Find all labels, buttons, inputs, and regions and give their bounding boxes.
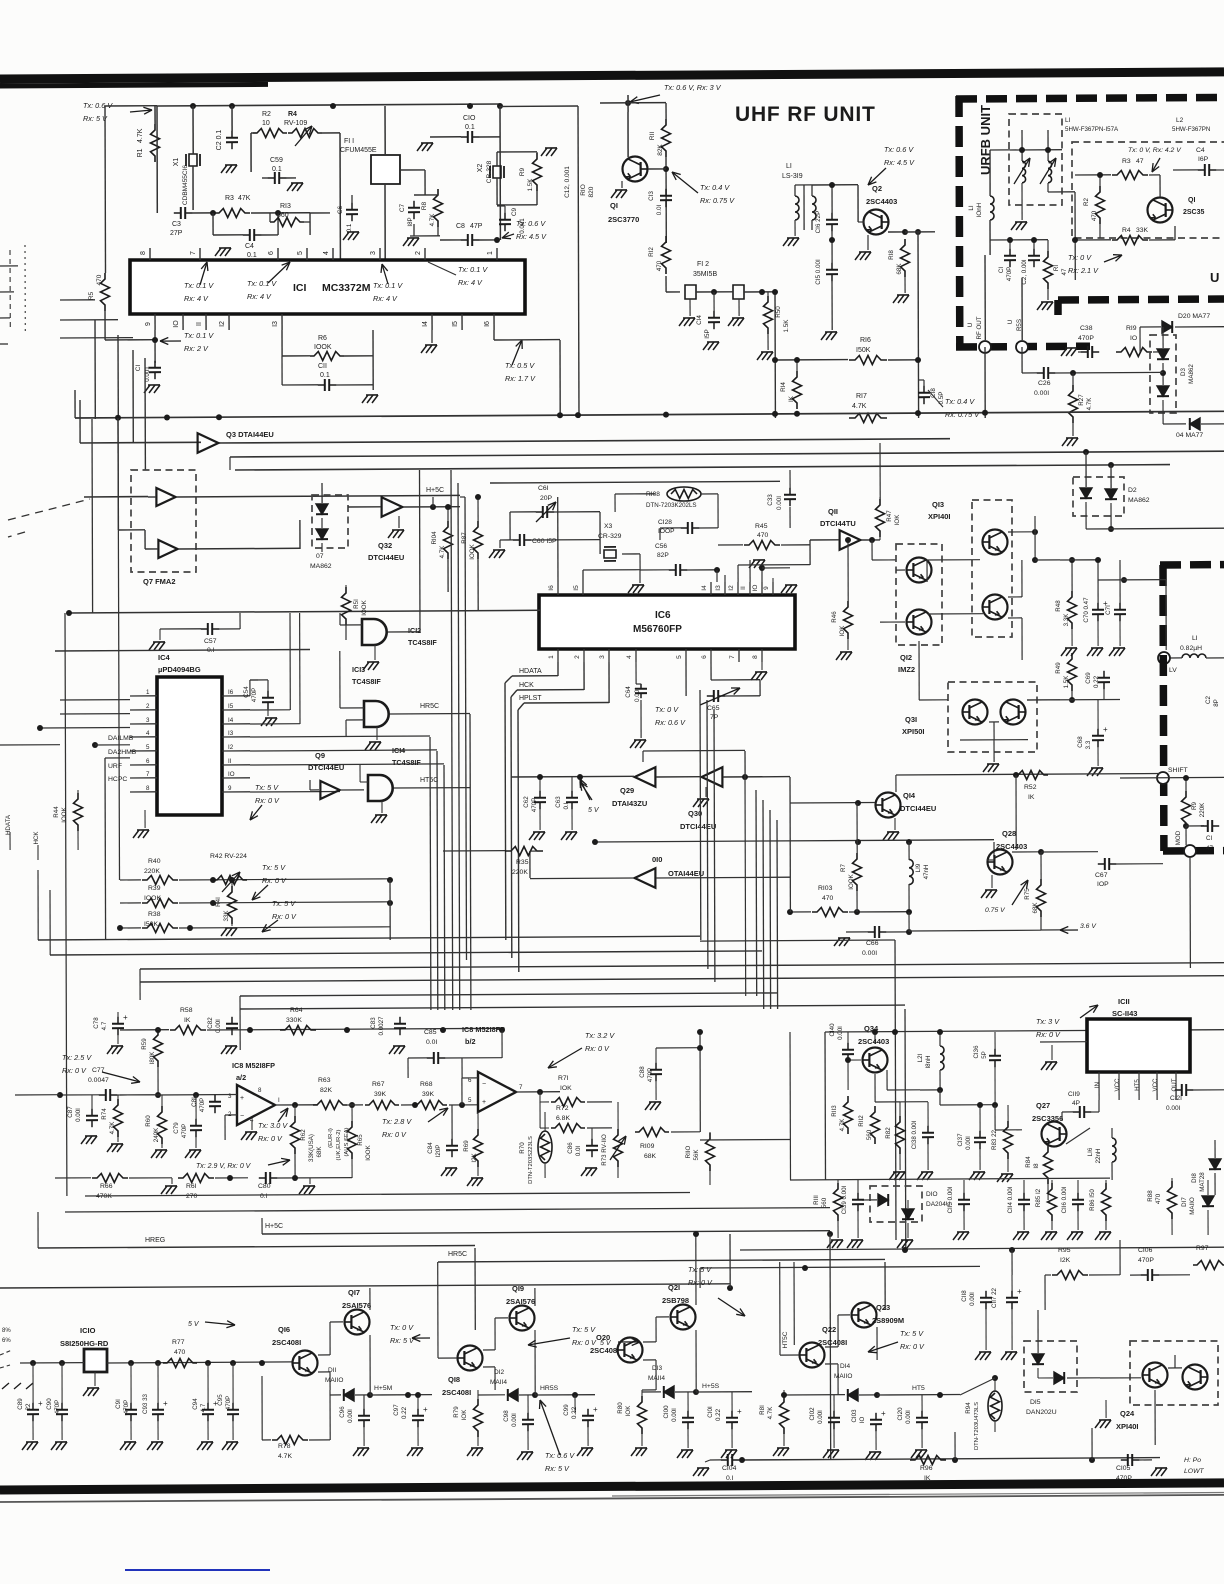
svg-text:C3: C3 bbox=[172, 221, 181, 228]
svg-text:+: + bbox=[881, 1409, 886, 1418]
svg-text:IOK: IOK bbox=[461, 1409, 468, 1421]
svg-text:Q28: Q28 bbox=[1002, 829, 1016, 838]
svg-text:RII2: RII2 bbox=[858, 1115, 865, 1127]
capacitor C6 bbox=[351, 203, 353, 210]
svg-text:I2: I2 bbox=[219, 321, 226, 327]
svg-text:QI3: QI3 bbox=[932, 500, 944, 509]
svg-text:DTCI44EU: DTCI44EU bbox=[368, 553, 404, 562]
svg-text:68K: 68K bbox=[896, 263, 903, 275]
svg-text:I5P: I5P bbox=[704, 329, 711, 338]
svg-text:DTCI44EU: DTCI44EU bbox=[900, 804, 936, 813]
svg-text:RIIO: RIIO bbox=[685, 1145, 692, 1158]
trimmer coil a bbox=[1022, 161, 1026, 183]
svg-text:MOD: MOD bbox=[1175, 830, 1182, 845]
IC1 MC3372M box bbox=[130, 260, 525, 314]
ground Q2 collector path bbox=[984, 347, 986, 418]
svg-text:QI2: QI2 bbox=[900, 653, 912, 662]
svg-text:R5: R5 bbox=[88, 291, 95, 300]
ground trimmers bbox=[1015, 221, 1027, 223]
svg-text:DI8: DI8 bbox=[1191, 1173, 1198, 1183]
grounds R48 C70 C71 bbox=[1065, 647, 1077, 649]
svg-text:C93 33: C93 33 bbox=[142, 1393, 149, 1414]
svg-text:IOK: IOK bbox=[894, 514, 901, 526]
svg-text:Tx: 5 V: Tx: 5 V bbox=[255, 783, 279, 792]
ground C57 bbox=[153, 641, 165, 643]
svg-text:HT5: HT5 bbox=[1134, 1079, 1141, 1091]
svg-text:Rx: 0.6 V: Rx: 0.6 V bbox=[655, 718, 686, 727]
svg-text:470P: 470P bbox=[181, 1124, 188, 1138]
wire rail y470 bbox=[235, 465, 1170, 470]
svg-text:9: 9 bbox=[763, 586, 770, 590]
svg-text:0.00I: 0.00I bbox=[511, 1413, 518, 1427]
svg-text:CI03: CI03 bbox=[851, 1409, 858, 1423]
diode D10a bbox=[878, 1194, 888, 1206]
svg-text:Tx: 0 V: Tx: 0 V bbox=[655, 705, 679, 714]
svg-text:RI08: RI08 bbox=[646, 491, 660, 498]
svg-text:H: Po: H: Po bbox=[1184, 1457, 1201, 1464]
svg-text:DIO: DIO bbox=[926, 1191, 938, 1198]
svg-text:IOOK: IOOK bbox=[314, 344, 332, 351]
svg-text:RIII: RIII bbox=[813, 1195, 820, 1205]
svg-text:R80: R80 bbox=[617, 1402, 624, 1414]
svg-text:3.3K: 3.3K bbox=[1063, 613, 1070, 627]
svg-text:CI4: CI4 bbox=[696, 315, 703, 325]
svg-text:Tx: 0.6 V: Tx: 0.6 V bbox=[545, 1451, 575, 1460]
wire pin6 bbox=[710, 662, 712, 680]
svg-text:R39: R39 bbox=[148, 885, 161, 892]
svg-text:H+5S: H+5S bbox=[702, 1383, 720, 1390]
transistor Q34 2SC4403 bbox=[863, 1048, 888, 1073]
svg-text:DTN-T203U473LS: DTN-T203U473LS bbox=[974, 1402, 980, 1450]
diode D2a bbox=[1080, 488, 1092, 498]
ground C79 bbox=[189, 1149, 201, 1151]
wire rail y613 bbox=[69, 610, 540, 613]
svg-text:C98: C98 bbox=[503, 1410, 510, 1422]
ground IC4 pin8 bbox=[137, 829, 149, 831]
svg-text:Q2: Q2 bbox=[872, 184, 882, 193]
svg-text:RI04: RI04 bbox=[431, 531, 438, 545]
svg-text:82K: 82K bbox=[320, 1087, 333, 1094]
svg-text:R77: R77 bbox=[172, 1339, 185, 1346]
svg-text:DI3: DI3 bbox=[652, 1365, 663, 1372]
ground C4 bbox=[219, 247, 231, 249]
svg-text:0.00I: 0.00I bbox=[965, 1136, 972, 1150]
svg-text:4: 4 bbox=[146, 730, 150, 737]
ground IC11 bbox=[1045, 1061, 1057, 1063]
capacitor CH right edge bbox=[1183, 823, 1189, 829]
svg-text:C4: C4 bbox=[1196, 147, 1205, 154]
dashed box Q7 FMA2 bbox=[131, 470, 196, 572]
IC1 bottom pins bbox=[154, 314, 156, 330]
svg-text:I6: I6 bbox=[484, 321, 491, 327]
svg-text:9: 9 bbox=[145, 322, 152, 326]
svg-text:Tx: 2.5 V: Tx: 2.5 V bbox=[62, 1053, 92, 1062]
resistor R11 bbox=[662, 119, 671, 157]
svg-text:R7I: R7I bbox=[558, 1075, 569, 1082]
svg-text:470P: 470P bbox=[1138, 1257, 1154, 1264]
svg-text:2: 2 bbox=[574, 655, 581, 659]
svg-text:IO: IO bbox=[228, 771, 235, 778]
svg-text:470P: 470P bbox=[531, 798, 538, 812]
svg-text:Tx: 0 V: Tx: 0 V bbox=[1068, 253, 1092, 262]
svg-text:470: 470 bbox=[822, 895, 834, 902]
wire pin16 right bbox=[493, 330, 495, 340]
svg-text:IC6: IC6 bbox=[655, 610, 671, 621]
svg-text:Q24: Q24 bbox=[1120, 1409, 1135, 1418]
dashed diagonal left bbox=[8, 499, 90, 520]
ground C1 bbox=[148, 384, 160, 386]
svg-text:5HW-F367PN-I57A: 5HW-F367PN-I57A bbox=[1065, 126, 1119, 133]
svg-text:2: 2 bbox=[146, 703, 150, 710]
svg-text:5: 5 bbox=[297, 251, 304, 255]
svg-text:470P: 470P bbox=[1078, 335, 1094, 342]
svg-text:4: 4 bbox=[323, 251, 330, 255]
svg-text:0.0I: 0.0I bbox=[426, 1039, 437, 1046]
svg-text:CI00: CI00 bbox=[663, 1405, 670, 1419]
transistor Q31a bbox=[963, 700, 988, 725]
svg-text:2SB798: 2SB798 bbox=[662, 1296, 689, 1305]
ground C62 bbox=[533, 831, 545, 833]
transistor Q22 2SC4081 bbox=[800, 1343, 825, 1368]
svg-text:7: 7 bbox=[519, 1084, 523, 1091]
svg-text:4P: 4P bbox=[1072, 1100, 1080, 1107]
svg-text:LI9: LI9 bbox=[915, 863, 922, 872]
svg-text:IOK: IOK bbox=[625, 1405, 632, 1417]
svg-text:TC4S8IF: TC4S8IF bbox=[408, 638, 437, 647]
svg-text:0.1: 0.1 bbox=[272, 166, 282, 173]
svg-text:4.7K: 4.7K bbox=[1086, 397, 1093, 411]
resistor R59 180K bbox=[154, 1029, 163, 1067]
svg-text:C7: C7 bbox=[399, 203, 406, 212]
svg-text:0.0I: 0.0I bbox=[656, 205, 663, 216]
svg-text:Tx: 0 V: Tx: 0 V bbox=[390, 1323, 414, 1332]
svg-text:DAN202U: DAN202U bbox=[1026, 1409, 1057, 1416]
ground Q24 bbox=[1099, 1419, 1111, 1421]
wires Q7 bbox=[148, 496, 156, 498]
svg-text:R88: R88 bbox=[1147, 1190, 1154, 1202]
svg-text:RI09: RI09 bbox=[640, 1143, 655, 1150]
svg-text:Q22: Q22 bbox=[822, 1325, 836, 1334]
wires IC10 bbox=[20, 1362, 84, 1364]
ground R69 bbox=[471, 1177, 483, 1179]
svg-text:Q27: Q27 bbox=[1036, 1101, 1050, 1110]
svg-text:C94: C94 bbox=[192, 1398, 199, 1410]
svg-text:I50K: I50K bbox=[856, 347, 871, 354]
svg-text:CII: CII bbox=[318, 363, 327, 370]
svg-text:04 MA77: 04 MA77 bbox=[1176, 432, 1203, 439]
svg-text:QII: QII bbox=[828, 507, 838, 516]
resistor R4 33K bbox=[1112, 236, 1148, 245]
svg-text:X3: X3 bbox=[604, 523, 613, 530]
svg-text:270: 270 bbox=[186, 1193, 198, 1200]
svg-text:33K(USA): 33K(USA) bbox=[308, 1134, 315, 1162]
svg-text:QI9: QI9 bbox=[512, 1284, 524, 1293]
svg-text:D2: D2 bbox=[1128, 487, 1137, 494]
crystal X1 bbox=[189, 154, 197, 166]
svg-text:Q2I: Q2I bbox=[668, 1283, 680, 1292]
inner dashed box right bbox=[1072, 142, 1224, 238]
resistor R12 bbox=[662, 236, 671, 274]
svg-text:1: 1 bbox=[487, 251, 494, 255]
svg-text:I80K: I80K bbox=[149, 1051, 156, 1065]
ground R6C11 bbox=[366, 394, 378, 396]
svg-text:a/2: a/2 bbox=[236, 1073, 246, 1082]
svg-text:FI 2: FI 2 bbox=[697, 261, 709, 268]
svg-text:4.7: 4.7 bbox=[200, 1403, 207, 1412]
wire HPLST bbox=[608, 662, 610, 703]
ground IC8a pin4 bbox=[245, 1131, 257, 1133]
ground C66 bbox=[838, 937, 850, 939]
svg-text:C62: C62 bbox=[523, 796, 530, 808]
svg-text:2SC3356: 2SC3356 bbox=[1032, 1114, 1063, 1123]
svg-text:Tx: 0.6 V, Rx: 3 V: Tx: 0.6 V, Rx: 3 V bbox=[664, 83, 722, 92]
resistor R35 220K bbox=[505, 847, 543, 856]
svg-text:MAII4: MAII4 bbox=[490, 1379, 507, 1386]
svg-text:Q3 DTAI44EU: Q3 DTAI44EU bbox=[226, 430, 274, 439]
dashed box D2 MA862 bbox=[1073, 477, 1124, 516]
svg-text:R5I: R5I bbox=[353, 599, 360, 609]
ground C80 right bbox=[303, 1185, 315, 1187]
svg-text:39K: 39K bbox=[374, 1091, 387, 1098]
svg-text:C99: C99 bbox=[563, 1404, 570, 1416]
svg-text:µPD4094BG: µPD4094BG bbox=[158, 665, 201, 674]
svg-text:QI7: QI7 bbox=[348, 1288, 360, 1297]
svg-text:R58: R58 bbox=[180, 1007, 193, 1014]
svg-text:LI: LI bbox=[786, 163, 792, 170]
svg-text:5 V: 5 V bbox=[588, 807, 600, 814]
svg-text:HCK: HCK bbox=[33, 831, 40, 845]
svg-text:8: 8 bbox=[140, 251, 147, 255]
svg-text:0.22: 0.22 bbox=[715, 1408, 722, 1421]
svg-text:R97: R97 bbox=[1196, 1245, 1209, 1252]
svg-text:470: 470 bbox=[1155, 1193, 1162, 1204]
resistor R51 bbox=[342, 587, 351, 625]
buffer Q3 DTAI44EU bbox=[198, 433, 219, 453]
svg-text:Rx: 4 V: Rx: 4 V bbox=[184, 294, 209, 303]
transistor Q20 2SC4081 bbox=[618, 1338, 643, 1363]
diode D10b bbox=[902, 1209, 914, 1219]
svg-text:R48: R48 bbox=[1055, 600, 1062, 612]
svg-text:560: 560 bbox=[821, 1197, 828, 1208]
svg-text:HT5C: HT5C bbox=[782, 1331, 789, 1348]
svg-text:Rx: 4 V: Rx: 4 V bbox=[373, 294, 398, 303]
svg-text:C69: C69 bbox=[1085, 672, 1092, 684]
svg-text:II: II bbox=[196, 322, 203, 326]
svg-text:IOOK: IOOK bbox=[361, 599, 368, 615]
URFB wiring bbox=[1047, 183, 1049, 192]
svg-text:470P: 470P bbox=[251, 688, 258, 702]
svg-text:R8I: R8I bbox=[759, 1405, 766, 1415]
svg-text:C82: C82 bbox=[207, 1017, 214, 1029]
svg-text:5: 5 bbox=[468, 1097, 472, 1104]
wires Q31 bbox=[918, 641, 920, 700]
ground Q31 bbox=[987, 763, 999, 765]
svg-text:ICIO: ICIO bbox=[80, 1326, 96, 1335]
gate IC12 TC4S8IF bbox=[362, 619, 387, 645]
resistor R9 bbox=[533, 153, 542, 191]
svg-text:C8: C8 bbox=[456, 223, 465, 230]
svg-text:DI7: DI7 bbox=[1181, 1197, 1188, 1207]
ground C84 bbox=[445, 1167, 457, 1169]
ground C87 bbox=[85, 1135, 97, 1137]
svg-text:UHF RF UNIT: UHF RF UNIT bbox=[735, 103, 876, 126]
svg-text:IOnH: IOnH bbox=[976, 202, 983, 217]
transistor Q1 2SC35 right bbox=[1148, 198, 1173, 223]
svg-text:Rx: 0.75 V: Rx: 0.75 V bbox=[700, 196, 735, 205]
svg-text:470P: 470P bbox=[1006, 267, 1013, 281]
svg-text:5HW-F367PN: 5HW-F367PN bbox=[1172, 126, 1210, 133]
svg-text:DA2HMB: DA2HMB bbox=[108, 749, 137, 756]
wires Q13 bbox=[927, 559, 980, 561]
svg-text:Tx: 0.5 V: Tx: 0.5 V bbox=[505, 361, 535, 370]
svg-text:82P: 82P bbox=[657, 552, 669, 559]
svg-text:5P: 5P bbox=[981, 1051, 988, 1059]
svg-text:C67: C67 bbox=[1095, 872, 1108, 879]
svg-text:R95: R95 bbox=[1058, 1247, 1071, 1254]
svg-text:27P: 27P bbox=[170, 230, 183, 237]
svg-text:C33: C33 bbox=[767, 494, 774, 506]
ground C6 bbox=[347, 231, 359, 233]
svg-text:LI: LI bbox=[968, 205, 975, 211]
resistor R9 220K right bbox=[1182, 791, 1191, 829]
svg-text:0.00I: 0.00I bbox=[1166, 1105, 1181, 1112]
svg-text:CI06: CI06 bbox=[1138, 1247, 1153, 1254]
svg-text:4.7K: 4.7K bbox=[278, 1453, 292, 1460]
capacitor C15 bbox=[831, 263, 833, 270]
wire bottom rail bbox=[740, 1458, 1160, 1460]
svg-text:C54: C54 bbox=[243, 686, 250, 698]
svg-text:0.0I: 0.0I bbox=[575, 1146, 582, 1157]
buffer Q10 OTAI44EU bbox=[635, 868, 656, 888]
ground C64 bbox=[634, 739, 646, 741]
buffer Q7a bbox=[156, 488, 175, 506]
svg-text:R82: R82 bbox=[885, 1127, 892, 1139]
svg-text:Rx: 0 V: Rx: 0 V bbox=[572, 1338, 597, 1347]
svg-text:b/2: b/2 bbox=[465, 1037, 476, 1046]
ground Q30 bbox=[697, 798, 709, 800]
svg-text:CI5 0.00I: CI5 0.00I bbox=[815, 259, 822, 285]
svg-text:HR5S: HR5S bbox=[540, 1385, 559, 1392]
svg-text:R7: R7 bbox=[840, 863, 847, 871]
ground L1 bbox=[787, 237, 799, 239]
svg-text:Tx: 0.4 V: Tx: 0.4 V bbox=[945, 397, 975, 406]
svg-text:ICI: ICI bbox=[293, 282, 307, 294]
resistor R65 100K bbox=[348, 1121, 357, 1159]
svg-text:L2: L2 bbox=[1176, 117, 1184, 124]
svg-text:D20 MA77: D20 MA77 bbox=[1178, 313, 1210, 320]
svg-text:Tx: 3 V: Tx: 3 V bbox=[1036, 1017, 1060, 1026]
ground C82 bbox=[225, 1045, 237, 1047]
svg-text:3.6 V: 3.6 V bbox=[1080, 923, 1097, 930]
svg-text:4: 4 bbox=[626, 655, 633, 659]
diode D15b bbox=[1054, 1372, 1064, 1384]
wire C3 branch bbox=[156, 106, 158, 213]
svg-text:C7I: C7I bbox=[1105, 605, 1112, 615]
svg-text:(EUR-I): (EUR-I) bbox=[328, 1128, 334, 1148]
svg-text:II: II bbox=[740, 586, 747, 590]
capacitor C105 470P bbox=[1121, 1459, 1128, 1461]
svg-text:C97: C97 bbox=[393, 1404, 400, 1416]
svg-text:4.7K: 4.7K bbox=[852, 403, 867, 410]
wire MOD down bbox=[1189, 857, 1191, 968]
svg-text:+: + bbox=[123, 1013, 128, 1022]
right frame vertical dash bbox=[1159, 565, 1167, 851]
svg-text:CI02: CI02 bbox=[809, 1407, 816, 1421]
svg-text:IOOK: IOOK bbox=[61, 806, 68, 822]
svg-text:RF OUT: RF OUT bbox=[976, 316, 983, 339]
resistor R5 bbox=[101, 273, 110, 311]
svg-text:IO: IO bbox=[1130, 335, 1137, 342]
svg-text:C84: C84 bbox=[427, 1142, 434, 1154]
wire rail y1268 right bbox=[700, 1266, 980, 1268]
svg-text:QI6: QI6 bbox=[278, 1325, 290, 1334]
svg-text:0.00I: 0.00I bbox=[817, 1410, 824, 1424]
svg-text:R78: R78 bbox=[278, 1443, 291, 1450]
svg-text:CII7 22: CII7 22 bbox=[991, 1287, 998, 1308]
svg-text:R3: R3 bbox=[1122, 158, 1131, 165]
svg-text:LI6: LI6 bbox=[1087, 1147, 1094, 1156]
resistor R47 bbox=[876, 499, 885, 537]
svg-text:DTN-7203K202LS: DTN-7203K202LS bbox=[646, 502, 697, 509]
wire pin16 top bbox=[557, 497, 559, 582]
resistor R46 bbox=[844, 601, 853, 639]
capacitor C9 bbox=[504, 213, 506, 220]
svg-text:RI4: RI4 bbox=[780, 382, 787, 392]
wire Q14 collector bbox=[895, 775, 897, 792]
svg-text:R3: R3 bbox=[225, 195, 234, 202]
buffer Q30 DTCI44EU bbox=[702, 767, 723, 787]
svg-text:10: 10 bbox=[262, 120, 270, 127]
svg-text:C8I: C8I bbox=[191, 1097, 198, 1107]
svg-text:2SAI576: 2SAI576 bbox=[506, 1297, 535, 1306]
svg-text:C9: C9 bbox=[511, 207, 518, 216]
wires L21 to Q27 bbox=[920, 1089, 940, 1091]
svg-text:Tx: 0.6 V: Tx: 0.6 V bbox=[516, 219, 546, 228]
wires opamp b bbox=[462, 1077, 478, 1079]
transistor Q18 2SC4081 bbox=[458, 1346, 483, 1371]
transistor Q17 2SAI576 bbox=[345, 1310, 370, 1335]
ground R61 bbox=[165, 1185, 177, 1187]
URFB unit frame top bbox=[956, 97, 1224, 99]
svg-text:330K: 330K bbox=[286, 1017, 302, 1024]
svg-text:I2K: I2K bbox=[1060, 1257, 1071, 1264]
ground R27 bbox=[1066, 437, 1078, 439]
svg-text:DTAI43ZU: DTAI43ZU bbox=[612, 799, 647, 808]
IC4 pins left bbox=[130, 695, 157, 697]
svg-text:3.3: 3.3 bbox=[1085, 740, 1092, 749]
svg-text:0.I: 0.I bbox=[260, 1193, 268, 1200]
svg-text:Tx: 2.8 V: Tx: 2.8 V bbox=[382, 1117, 412, 1126]
resistor R96 1K bbox=[910, 1456, 946, 1465]
ground C63 bbox=[565, 831, 577, 833]
ground R41 bbox=[225, 927, 237, 929]
resistor R50 bbox=[764, 296, 773, 334]
wire pins 13 12 up bbox=[716, 570, 718, 582]
svg-text:5: 5 bbox=[676, 655, 683, 659]
svg-text:HDATA: HDATA bbox=[519, 668, 542, 675]
svg-text:IOK: IOK bbox=[839, 625, 846, 637]
svg-text:C65: C65 bbox=[707, 705, 720, 712]
wire HCK bbox=[583, 662, 585, 690]
svg-text:Tx: 0.1 V: Tx: 0.1 V bbox=[184, 281, 214, 290]
svg-text:−: − bbox=[482, 1081, 486, 1088]
svg-text:I2: I2 bbox=[728, 585, 735, 591]
svg-text:1: 1 bbox=[548, 655, 555, 659]
svg-text:IC8 M52I8FP: IC8 M52I8FP bbox=[462, 1025, 505, 1034]
svg-text:1: 1 bbox=[146, 689, 150, 696]
svg-text:ICI4: ICI4 bbox=[392, 746, 405, 755]
svg-text:DTCI44TU: DTCI44TU bbox=[820, 519, 856, 528]
